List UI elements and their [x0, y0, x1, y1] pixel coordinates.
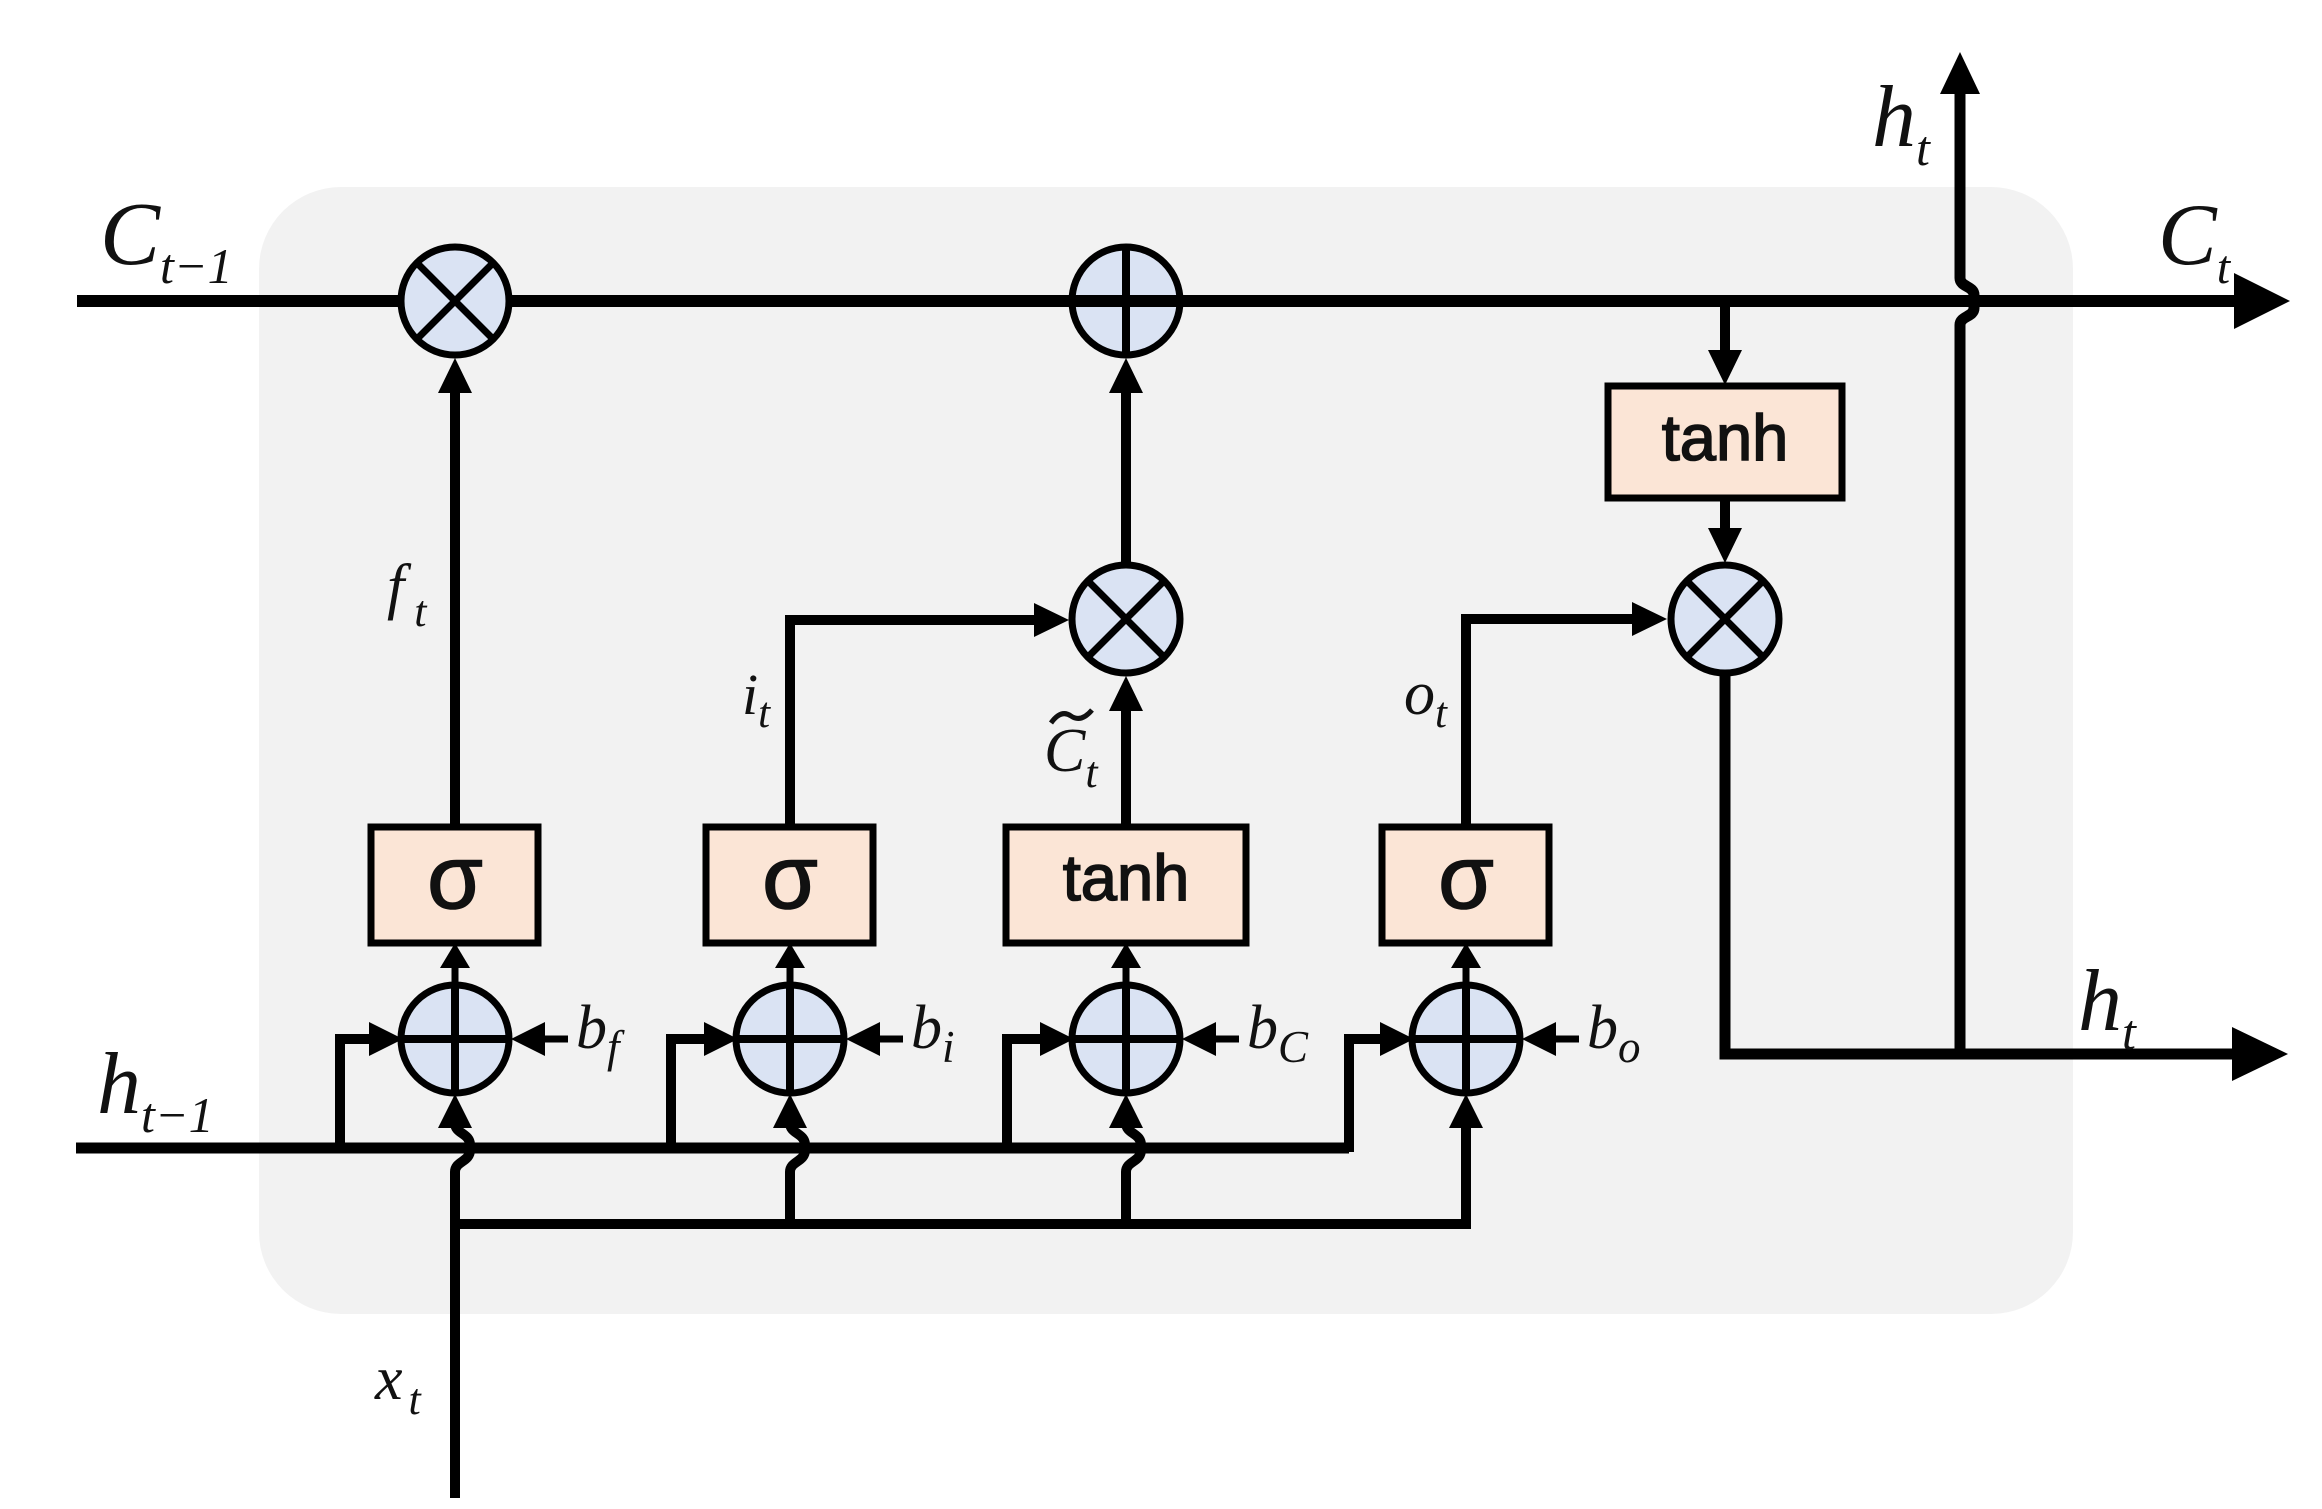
gate box sigma output [1382, 827, 1549, 943]
bias feed b_i [880, 1036, 903, 1043]
add node cell-state (+) [1072, 247, 1180, 355]
bias feed b_o [1556, 1036, 1579, 1043]
wire h_t vertical with hop over C line [1960, 94, 1974, 1054]
arrow add1 to sigma1 [452, 966, 459, 987]
elbow h to add3 [1007, 1039, 1040, 1152]
wire i_t elbow into multiply node [790, 620, 1034, 827]
wire h_t output down and right [1725, 674, 2234, 1054]
feed with hop into add2 [790, 1123, 805, 1224]
wire candidate tanh output [1121, 710, 1131, 827]
add node input bias (+) [736, 985, 844, 1093]
wire candidate*input into add node [1121, 392, 1131, 564]
wire tanh box to output multiply [1720, 498, 1730, 528]
svg-text:σ: σ [427, 828, 483, 928]
arrow add2 to sigma2 [787, 966, 794, 987]
svg-text:xt: xt [374, 1345, 423, 1424]
wire f_t gate output [450, 392, 460, 828]
svg-text:ht: ht [2078, 953, 2137, 1060]
elbow h to add2 [671, 1039, 704, 1152]
feed with hop into add3 [1126, 1123, 1141, 1224]
svg-text:ht−1: ht−1 [97, 1036, 214, 1143]
svg-text:ht: ht [1872, 69, 1931, 176]
add node output bias (+) [1412, 985, 1520, 1093]
add node forget bias (+) [401, 985, 509, 1093]
arrow add3 to tanh gate [1123, 966, 1130, 987]
svg-text:σ: σ [762, 828, 818, 928]
wire cell-state line C [77, 295, 2236, 307]
arrow add4 to sigma4 [1463, 966, 1470, 987]
LSTM cell body [259, 187, 2073, 1314]
multiply node input (x) [1072, 565, 1180, 673]
wire C line to tanh box [1720, 307, 1730, 350]
wire x distribution line with corner to add4 [455, 1128, 1466, 1224]
multiply node output (x) [1671, 565, 1779, 673]
label C~_t [1051, 710, 1092, 723]
svg-text:tanh: tanh [1662, 401, 1789, 474]
wire h_t-1 line [76, 1143, 1349, 1154]
svg-text:tanh: tanh [1063, 841, 1190, 914]
gate box sigma forget [371, 827, 538, 943]
multiply node forget (x) [401, 247, 509, 355]
wire o_t elbow into output multiply [1466, 619, 1632, 827]
add node candidate bias (+) [1072, 985, 1180, 1093]
tanh box right [1608, 386, 1842, 498]
bias feed b_f [545, 1036, 568, 1043]
svg-text:σ: σ [1438, 828, 1494, 928]
svg-text:Ct−1: Ct−1 [100, 185, 233, 294]
bias feed b_C [1216, 1036, 1239, 1043]
svg-text:Ct: Ct [2158, 187, 2232, 294]
wire x_t with hop into add1 [455, 1123, 470, 1498]
elbow h to add4 [1349, 1039, 1380, 1152]
gate box tanh candidate [1006, 827, 1246, 943]
elbow h to add1 [340, 1039, 369, 1152]
gate box sigma input [706, 827, 873, 943]
